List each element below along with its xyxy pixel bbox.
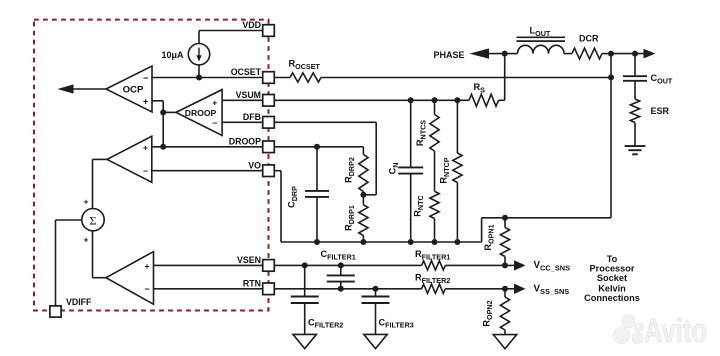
svg-text:+: +: [144, 261, 149, 271]
svg-text:OCP: OCP: [123, 85, 144, 96]
svg-text:Σ: Σ: [90, 213, 97, 227]
svg-text:Avito: Avito: [644, 312, 707, 349]
svg-text:Connections: Connections: [584, 293, 640, 303]
svg-text:DCR: DCR: [579, 34, 599, 44]
svg-text:DFB: DFB: [243, 112, 261, 122]
svg-text:PHASE: PHASE: [433, 50, 464, 60]
svg-text:To: To: [607, 254, 618, 264]
svg-text:+: +: [143, 142, 148, 152]
svg-text:VSEN: VSEN: [237, 255, 261, 265]
svg-text:Processor: Processor: [590, 264, 635, 274]
svg-text:−: −: [143, 73, 148, 83]
svg-text:+: +: [83, 234, 88, 244]
svg-text:VDD: VDD: [242, 20, 261, 30]
svg-text:VSUM: VSUM: [236, 90, 261, 100]
svg-text:ESR: ESR: [651, 106, 670, 116]
svg-text:−: −: [212, 118, 217, 128]
svg-text:+: +: [143, 96, 148, 106]
svg-text:+: +: [212, 98, 217, 108]
svg-text:10μA: 10μA: [161, 50, 184, 60]
svg-text:+: +: [83, 196, 88, 206]
svg-text:−: −: [144, 284, 149, 294]
svg-text:RTN: RTN: [243, 279, 261, 289]
svg-text:−: −: [143, 166, 148, 176]
svg-text:VO: VO: [248, 160, 261, 170]
svg-text:Socket: Socket: [597, 273, 627, 283]
svg-text:DROOP: DROOP: [229, 137, 261, 147]
svg-text:Kelvin: Kelvin: [598, 283, 626, 293]
svg-text:OCSET: OCSET: [231, 67, 262, 77]
svg-text:VDIFF: VDIFF: [66, 297, 92, 307]
svg-text:DROOP: DROOP: [185, 108, 217, 118]
